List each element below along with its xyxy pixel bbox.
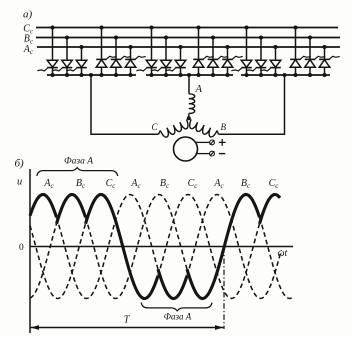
star point junction <box>187 116 191 120</box>
label hump 3 Сc <box>106 178 117 190</box>
machine (exciter) circle <box>174 137 198 161</box>
label - <box>219 153 226 155</box>
junction drop groups 3-4 <box>187 73 191 77</box>
axis label wt <box>278 248 288 259</box>
wire to winding C <box>91 133 159 135</box>
overbrace phase A group <box>37 168 118 176</box>
junction drop groups 5-6 <box>283 73 287 77</box>
label Фаза А (top) <box>64 157 93 167</box>
svg-text:Т: Т <box>124 315 131 326</box>
svg-text:Сс: Сс <box>269 178 280 190</box>
svg-text:В: В <box>221 122 227 132</box>
label hump 4 Аc <box>130 178 141 190</box>
wire to terminal - <box>196 153 210 155</box>
axis u (vertical) <box>29 169 31 333</box>
bus label Cc <box>23 24 34 36</box>
figure label б) <box>15 158 25 170</box>
output voltage envelope (bold) <box>30 195 280 299</box>
label + <box>219 139 226 146</box>
dc bus groups 3-4 <box>146 74 233 76</box>
thyristor VS15 group5 phase A (cathode group) <box>260 45 281 77</box>
wire drop left <box>90 75 92 135</box>
thyristor VS12 group4 phase A (anode group) <box>222 45 243 77</box>
sine phase B dashed part 3 <box>260 217 294 298</box>
axis label u <box>17 177 22 188</box>
thyristor VS14 group5 phase B (cathode group) <box>246 35 266 77</box>
bus label Ac <box>23 44 34 56</box>
svg-text:Ас: Ас <box>43 178 54 190</box>
phase bus Ac <box>37 46 340 48</box>
svg-text:u: u <box>17 177 22 188</box>
thyristor VS3 group1 phase A (cathode group) <box>66 45 87 77</box>
wire drop right <box>284 75 286 135</box>
label Фаза А (bottom) <box>164 312 192 322</box>
label hump 9 Сc <box>269 178 280 190</box>
label winding C <box>152 122 159 132</box>
svg-text:Фаза А: Фаза А <box>64 157 93 167</box>
svg-text:Ас: Ас <box>130 178 141 190</box>
dc bus groups 1-2 <box>47 74 136 76</box>
thyristor VS11 group4 phase B (anode group) <box>208 35 229 77</box>
svg-text:а): а) <box>23 9 33 21</box>
phase bus Bc <box>36 37 340 39</box>
label hump 2 Вc <box>76 178 86 190</box>
thyristor VS7 group3 phase C (cathode group) <box>136 25 157 77</box>
label hump 5 Вc <box>160 178 170 190</box>
svg-text:Вс: Вс <box>76 178 86 190</box>
label 0 (origin) <box>19 243 24 253</box>
thyristor VS16 group6 phase C (anode group) <box>290 25 311 77</box>
terminal + (circle) <box>210 140 215 145</box>
thyristor VS4 group2 phase C (anode group) <box>96 25 117 77</box>
sine phase A dashed part 1 <box>57 195 159 299</box>
sine phase B dashed part 2 <box>86 195 188 299</box>
thyristor VS18 group6 phase A (anode group) <box>319 45 340 77</box>
wire to terminal + <box>196 141 210 143</box>
svg-text:б): б) <box>15 158 25 170</box>
terminal - (circle) <box>210 151 215 156</box>
thyristor VS8 group3 phase B (cathode group) <box>151 35 172 77</box>
thyristor VS9 group3 phase A (cathode group) <box>165 45 186 77</box>
phase bus Cc <box>36 27 338 29</box>
svg-text:Вс: Вс <box>241 178 251 190</box>
axis wt (zero line) <box>30 246 293 248</box>
dimension line T <box>31 325 224 330</box>
svg-text:А: А <box>195 84 203 95</box>
svg-text:0: 0 <box>19 243 24 253</box>
thyristor VS2 group1 phase B (cathode group) <box>52 35 73 77</box>
thyristor VS13 group5 phase C (cathode group) <box>231 25 252 77</box>
thyristor VS5 group2 phase B (anode group) <box>111 35 132 77</box>
svg-text:Сс: Сс <box>188 178 199 190</box>
underbrace phase A group <box>141 303 212 311</box>
thyristor VS10 group4 phase C (anode group) <box>193 25 214 77</box>
label T <box>124 315 131 326</box>
svg-text:С: С <box>152 122 159 132</box>
thyristor VS6 group2 phase A (anode group) <box>125 45 146 77</box>
bus label Bc <box>24 34 34 46</box>
label winding A <box>195 84 203 95</box>
svg-text:Ас: Ас <box>213 178 224 190</box>
label hump 7 Аc <box>213 178 224 190</box>
sine phase C dashed part 2 <box>158 195 260 299</box>
svg-text:Сс: Сс <box>106 178 117 190</box>
period boundary line <box>223 247 225 329</box>
sine phase A dashed part 2 <box>187 195 281 299</box>
thyristor VS17 group6 phase B (anode group) <box>305 35 326 77</box>
label winding B <box>221 122 227 132</box>
label hump 8 Вc <box>241 178 251 190</box>
dc bus groups 5-6 <box>241 74 330 76</box>
svg-text:Фаза А: Фаза А <box>164 312 192 322</box>
sine phase B dashed part 1 <box>30 224 57 298</box>
wire drop middle <box>188 75 190 94</box>
wire to winding B <box>219 133 285 135</box>
winding C (coil) <box>159 119 188 137</box>
sine phase C dashed part 1 <box>30 224 86 299</box>
winding A (coil) <box>189 94 195 118</box>
winding B (coil) <box>190 119 219 137</box>
thyristor VS1 group1 phase C (cathode group) <box>37 25 58 77</box>
svg-text:Вс: Вс <box>160 178 170 190</box>
label hump 1 Аc <box>43 178 54 190</box>
junction drop groups 1-2 <box>89 73 93 77</box>
figure label а) <box>23 9 33 21</box>
label hump 6 Сc <box>188 178 199 190</box>
